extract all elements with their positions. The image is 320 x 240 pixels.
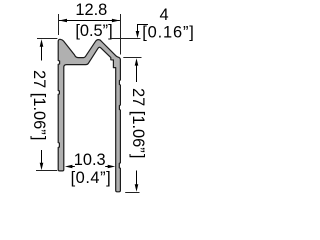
top dim arrow right	[112, 19, 120, 23]
right wall bottom extension line	[125, 192, 139, 194]
4mm leader horizontal jog	[137, 24, 148, 26]
right 27 dim line lower segment with down arrow	[136, 171, 138, 186]
top dimension extension line left	[58, 14, 60, 35]
svg-text:27 [1.06”]: 27 [1.06”]	[30, 70, 48, 140]
right wall top extension line	[123, 57, 141, 59]
right 27 dim line upper segment with up arrow	[135, 58, 139, 65]
top dimension line	[59, 20, 120, 22]
left 27 dim line lower segment with down arrow	[41, 150, 43, 164]
left 27 dim line upper segment with up arrow	[40, 39, 44, 46]
profile cross-section body	[58, 39, 120, 192]
bottom 10.3 right arrow	[108, 165, 116, 168]
svg-text:[0.4”]: [0.4”]	[71, 169, 112, 187]
svg-text:12.8: 12.8	[75, 1, 107, 19]
top dim arrow left	[59, 19, 67, 23]
left 27 top extension line	[37, 38, 57, 40]
bottom 10.3 left arrow	[65, 165, 73, 168]
svg-text:10.3: 10.3	[74, 151, 106, 169]
peak top extension line	[111, 38, 141, 40]
svg-text:27 [1.06”]: 27 [1.06”]	[129, 88, 147, 158]
svg-text:[0.16”]: [0.16”]	[142, 24, 194, 42]
left 27 bottom extension line	[36, 170, 57, 172]
4mm leader vertical + arrow down	[137, 25, 139, 32]
svg-text:4: 4	[159, 6, 168, 24]
svg-text:[0.5”]: [0.5”]	[75, 22, 112, 40]
top dimension extension line right	[120, 14, 122, 55]
